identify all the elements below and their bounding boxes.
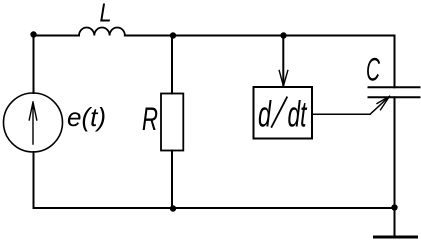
d/dt block U1 [254, 87, 313, 139]
wire resistor top [171, 36, 173, 94]
wire right rail upper [394, 36, 396, 88]
wire node B down arrow to d/dt [282, 36, 284, 86]
node dot top-left [30, 31, 36, 37]
capacitor control arrow [370, 96, 390, 114]
wire node B to top-right corner [284, 35, 395, 37]
current source e(t) [4, 93, 63, 152]
svg-text:e(t): e(t) [67, 102, 106, 132]
svg-text:C: C [366, 52, 381, 88]
svg-text:dt: dt [288, 94, 308, 135]
wire top-left to inductor [34, 35, 80, 37]
svg-text:L: L [100, 0, 112, 28]
capacitor C top plate [369, 86, 420, 88]
node dot resistor bottom [170, 205, 176, 211]
inductor L [79, 28, 125, 36]
node B dot [280, 32, 286, 38]
capacitor C bottom plate [369, 96, 420, 98]
wire resistor bottom [171, 151, 173, 209]
wire d/dt output [312, 113, 370, 115]
arrowhead into d/dt [279, 71, 288, 87]
wire left rail upper [33, 36, 35, 94]
wire left rail lower [33, 152, 35, 208]
node A dot [170, 32, 176, 38]
wire node A to node B [173, 35, 284, 37]
slash of d/dt [271, 97, 287, 128]
ground [375, 236, 417, 239]
wire right rail lower [394, 97, 396, 208]
wire inductor to node A [125, 35, 173, 37]
resistor R [161, 94, 183, 151]
svg-text:d: d [258, 94, 272, 135]
node dot right-bottom [391, 204, 397, 210]
source arrow [29, 102, 37, 144]
wire ground stem [394, 208, 396, 237]
wire bottom [34, 207, 395, 209]
svg-text:R: R [142, 101, 158, 137]
